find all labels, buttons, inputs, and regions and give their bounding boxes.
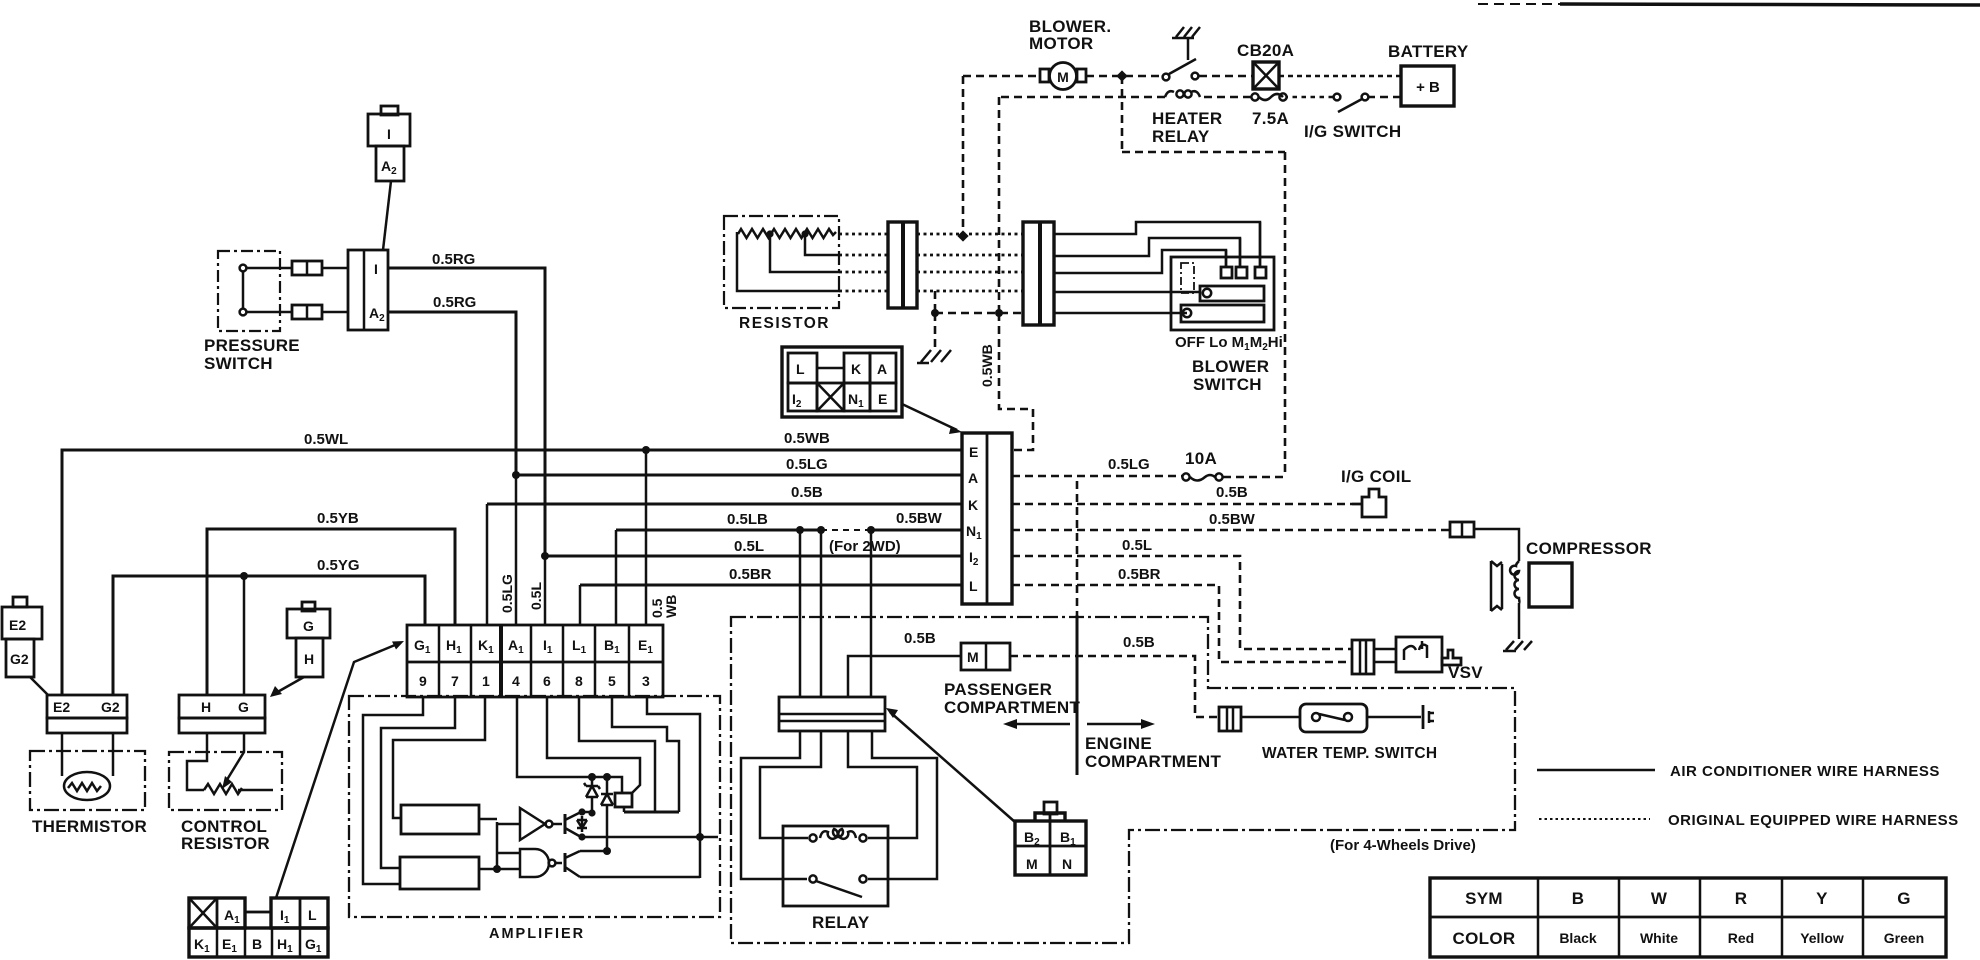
connector 2x5 block (amplifier pigtail) bbox=[189, 898, 328, 957]
wire 0.5LG bus bbox=[516, 474, 962, 477]
svg-text:0.5WB: 0.5WB bbox=[784, 430, 830, 447]
svg-text:I/G SWITCH: I/G SWITCH bbox=[1304, 122, 1401, 141]
wire I/G switch to fuse bbox=[1287, 96, 1333, 99]
connector compressor bbox=[1450, 522, 1474, 537]
svg-text:E: E bbox=[969, 444, 978, 460]
wire 0.5BR bus bbox=[580, 584, 962, 587]
svg-text:Y: Y bbox=[1816, 889, 1828, 908]
control resistor connector H G bbox=[179, 695, 265, 733]
wire blower motor drop to resistor bus bbox=[962, 76, 965, 236]
IG coil bbox=[1352, 489, 1386, 517]
svg-text:0.5L: 0.5L bbox=[734, 538, 764, 555]
wire amp pin7 staircase bbox=[381, 697, 455, 868]
wire fuse to CB20A drop bbox=[1223, 476, 1285, 479]
wire pointer B2 connector to relay connector bbox=[886, 708, 1015, 822]
wire 0.5LG riser to A1 bbox=[515, 475, 518, 625]
node junction Q1 collector bbox=[578, 808, 585, 815]
wire connector to compressor bbox=[1474, 529, 1519, 561]
connector blower switch side bbox=[1023, 222, 1054, 325]
pressure switch bbox=[218, 251, 292, 331]
svg-text:RESISTOR: RESISTOR bbox=[181, 834, 270, 853]
svg-text:Yellow: Yellow bbox=[1800, 930, 1844, 946]
compartment divider bbox=[1076, 481, 1079, 775]
connector pigtail E2/G2 bbox=[2, 597, 48, 695]
wire block outputs bbox=[479, 819, 520, 869]
svg-text:M: M bbox=[967, 649, 979, 665]
inverter gate bbox=[520, 808, 562, 840]
svg-text:G: G bbox=[1897, 889, 1911, 908]
page edge line top right bbox=[1478, 4, 1980, 5]
node junction emitter/pin3 bbox=[696, 833, 704, 841]
wire blower switch feed Lo bbox=[1054, 291, 1200, 294]
connector M bbox=[961, 643, 1010, 670]
fuse 7.5A bbox=[1251, 93, 1286, 100]
svg-text:E: E bbox=[878, 391, 887, 407]
wire connector to water temp switch bbox=[1241, 716, 1300, 719]
wire relay coil left bbox=[760, 731, 821, 838]
svg-text:RELAY: RELAY bbox=[812, 913, 870, 932]
diode D2 bbox=[601, 777, 613, 851]
wire pointer 2x5 block to amplifier connector bbox=[276, 641, 404, 898]
harness boundary loop (For 4WD) bbox=[731, 617, 1515, 943]
wire blower switch feed Hi bbox=[1054, 222, 1260, 267]
svg-text:(For 4-Wheels Drive): (For 4-Wheels Drive) bbox=[1330, 837, 1476, 854]
wire 0.5WB dashed drop to E bbox=[999, 97, 1033, 450]
connector strip E A K N1 I2 L bbox=[962, 433, 1012, 604]
wire 0.5LG to fuse bbox=[1012, 475, 1183, 478]
ground below resistor bus bbox=[917, 350, 951, 363]
svg-text:0.5RG: 0.5RG bbox=[433, 294, 476, 311]
heater relay label bbox=[1152, 109, 1222, 146]
svg-text:B: B bbox=[252, 936, 262, 952]
thermistor connector E2 G2 bbox=[47, 695, 127, 733]
legend dotted harness bbox=[1539, 812, 1959, 829]
ground above heater relay bbox=[1172, 27, 1200, 38]
compressor bbox=[1491, 561, 1572, 639]
svg-text:0.5BR: 0.5BR bbox=[1118, 566, 1161, 583]
svg-text:BATTERY: BATTERY bbox=[1388, 42, 1469, 61]
svg-text:THERMISTOR: THERMISTOR bbox=[32, 817, 147, 836]
wire amp pin8 staircase bbox=[579, 697, 655, 812]
svg-text:BLOWER: BLOWER bbox=[1192, 357, 1269, 376]
wire amp pin9 staircase bbox=[363, 697, 423, 884]
svg-text:ENGINE: ENGINE bbox=[1085, 734, 1152, 753]
svg-text:L: L bbox=[308, 907, 317, 923]
wire 0.5B bus bbox=[487, 503, 962, 506]
svg-text:M: M bbox=[1057, 69, 1069, 85]
svg-text:0.5LG: 0.5LG bbox=[786, 456, 828, 473]
wire 0.5YG bbox=[113, 576, 425, 695]
wire connector to VSV bbox=[1374, 649, 1397, 662]
wire switch to body ground bbox=[1367, 716, 1421, 719]
wire 0.5B to IG coil bbox=[1012, 503, 1352, 506]
terminal bead lower bbox=[292, 305, 322, 319]
svg-text:A: A bbox=[968, 470, 978, 486]
wire amp pin5 staircase bbox=[612, 697, 679, 812]
passenger compartment label bbox=[944, 680, 1080, 717]
svg-text:RELAY: RELAY bbox=[1152, 127, 1210, 146]
wire amp pin1 staircase bbox=[393, 697, 485, 818]
svg-text:M: M bbox=[1026, 856, 1038, 872]
svg-text:0.5WB: 0.5WB bbox=[979, 344, 995, 387]
svg-text:0.5WL: 0.5WL bbox=[304, 431, 348, 448]
wire heater relay coil to 0.5WB drop bbox=[999, 96, 1165, 99]
svg-text:PRESSURE: PRESSURE bbox=[204, 336, 300, 355]
wire 0.5L bus bbox=[545, 555, 962, 558]
node junction resistor ground bbox=[931, 309, 939, 317]
wire resistor to connector dotted bbox=[839, 234, 888, 291]
connector B2 B1 M N bbox=[1015, 802, 1086, 875]
legend solid harness bbox=[1537, 763, 1940, 780]
svg-text:SYM: SYM bbox=[1465, 889, 1503, 908]
wire amp pin3 staircase bbox=[647, 697, 700, 878]
color code table bbox=[1430, 878, 1946, 957]
svg-text:H: H bbox=[304, 651, 314, 667]
wire pointer block to strip bbox=[902, 404, 962, 434]
body ground water temp bbox=[1423, 705, 1434, 729]
svg-text:AMPLIFIER: AMPLIFIER bbox=[489, 926, 585, 942]
node junction motor right bbox=[1116, 70, 1127, 81]
node junction relay feed 3 bbox=[867, 526, 875, 534]
wire box to rail bbox=[623, 807, 626, 812]
circuit breaker CB20A bbox=[1253, 62, 1279, 89]
node junction diode top bbox=[603, 773, 611, 781]
blower motor M1 bbox=[1040, 63, 1086, 90]
svg-text:G: G bbox=[238, 699, 249, 715]
wire 0.5L riser to I1 bbox=[544, 556, 547, 625]
water temp switch bbox=[1300, 704, 1367, 732]
svg-text:L: L bbox=[969, 578, 978, 594]
svg-text:WATER TEMP. SWITCH: WATER TEMP. SWITCH bbox=[1262, 745, 1437, 762]
NAND gate bbox=[520, 849, 562, 877]
wire relay coil right bbox=[848, 731, 917, 838]
node junction Q2 collector bbox=[603, 847, 611, 855]
wire blower switch feed M2 bbox=[1054, 238, 1240, 267]
control resistor label bbox=[181, 817, 270, 853]
wire relay switch right bbox=[868, 731, 937, 879]
svg-text:4: 4 bbox=[512, 673, 520, 689]
wire contact to CB20A bbox=[1199, 75, 1253, 78]
wire Q1 collector node bbox=[581, 811, 592, 814]
control resistor bbox=[169, 733, 282, 810]
node junction NAND input bbox=[493, 865, 501, 873]
wire beads to connector bbox=[322, 268, 348, 312]
heater relay coil bbox=[1165, 90, 1200, 97]
node junction relay feed 1 bbox=[796, 526, 804, 534]
svg-text:N: N bbox=[1062, 856, 1072, 872]
wire 0.5BR to VSV bbox=[1012, 585, 1352, 662]
connector pigtail G/H bbox=[270, 602, 330, 697]
svg-text:10A: 10A bbox=[1185, 449, 1217, 468]
svg-text:0.5B: 0.5B bbox=[791, 484, 823, 501]
wire 0.5LB bus bbox=[616, 529, 962, 532]
wire 0.5B riser to K1 bbox=[486, 504, 489, 625]
connector block L K A / I2 N1 E bbox=[782, 347, 902, 417]
node junction zener bottom bbox=[588, 809, 595, 816]
wire 0.5RG lower bbox=[388, 312, 516, 475]
svg-text:8: 8 bbox=[575, 673, 583, 689]
wire ground link bbox=[935, 291, 1023, 348]
svg-text:5: 5 bbox=[608, 673, 616, 689]
wire CB20A to battery bbox=[1279, 75, 1401, 78]
svg-text:R: R bbox=[1735, 889, 1748, 908]
svg-text:0.5RG: 0.5RG bbox=[432, 251, 475, 268]
wire relay switch left bbox=[741, 731, 807, 879]
wire For 2WD dashed link bbox=[821, 529, 871, 531]
wire 0.5BW to compressor connector bbox=[1012, 529, 1450, 532]
node junction 0.5WL/0.5WB/E1 bbox=[642, 446, 650, 454]
ground compressor bbox=[1503, 641, 1532, 651]
svg-text:0.5B: 0.5B bbox=[1216, 484, 1248, 501]
svg-text:A: A bbox=[877, 361, 887, 377]
svg-text:H: H bbox=[201, 699, 211, 715]
svg-text:I: I bbox=[374, 261, 378, 277]
blower motor M1 label bbox=[1029, 17, 1111, 53]
wire collector rail bbox=[624, 811, 679, 814]
node junction at motor left drop bbox=[957, 230, 968, 241]
wire amp pin4 rail bbox=[517, 697, 622, 793]
svg-text:COMPRESSOR: COMPRESSOR bbox=[1526, 539, 1652, 558]
svg-text:PASSENGER: PASSENGER bbox=[944, 680, 1052, 699]
svg-text:I: I bbox=[387, 126, 391, 142]
svg-text:COMPARTMENT: COMPARTMENT bbox=[1085, 752, 1221, 771]
arrow passenger bbox=[1003, 719, 1070, 729]
wire blower switch feed E bbox=[1054, 312, 1187, 315]
node junction 0.5RG/0.5L bbox=[541, 552, 549, 560]
svg-text:W: W bbox=[1651, 889, 1668, 908]
zener D1 bbox=[584, 777, 600, 812]
resistor (blower) bbox=[724, 216, 839, 308]
wire 0.5BR riser to L1 bbox=[579, 585, 582, 625]
svg-text:G: G bbox=[303, 618, 314, 634]
wire relay feeds down bbox=[800, 530, 871, 697]
wire control resistor G tap bbox=[243, 576, 246, 695]
wire blower switch feed M1 bbox=[1054, 250, 1226, 273]
wire 0.5YB bbox=[207, 529, 455, 695]
blower switch label bbox=[1192, 357, 1269, 394]
svg-text:0.5L: 0.5L bbox=[1122, 537, 1152, 554]
node junction 0.5YG/G bbox=[240, 572, 248, 580]
amplifier block upper bbox=[401, 805, 479, 834]
I/G switch bbox=[1334, 94, 1369, 112]
fuse 10A bbox=[1182, 473, 1222, 480]
svg-text:WB: WB bbox=[663, 595, 679, 618]
svg-text:K: K bbox=[968, 497, 978, 513]
wire relay to M connector bbox=[848, 656, 961, 697]
wire Q2 emitter line bbox=[580, 876, 700, 879]
connector resistor side bbox=[888, 222, 917, 308]
svg-text:HEATER: HEATER bbox=[1152, 109, 1222, 128]
pressure switch label bbox=[204, 336, 300, 373]
svg-text:Green: Green bbox=[1884, 930, 1924, 946]
VSV bbox=[1396, 637, 1461, 672]
wire 0.5L to VSV bbox=[1012, 556, 1352, 649]
svg-text:+ B: + B bbox=[1416, 79, 1440, 96]
wire amp pin6 staircase bbox=[547, 697, 640, 793]
svg-text:ORIGINAL EQUIPPED WIRE HARNESS: ORIGINAL EQUIPPED WIRE HARNESS bbox=[1668, 812, 1959, 829]
svg-text:0.5LB: 0.5LB bbox=[727, 511, 768, 528]
wire blower motor feed (dashed, original harness) bbox=[963, 75, 1163, 78]
svg-text:SWITCH: SWITCH bbox=[204, 354, 273, 373]
svg-text:I/G COIL: I/G COIL bbox=[1341, 467, 1411, 486]
wire M to water temp switch bbox=[1010, 656, 1219, 717]
thermistor bbox=[30, 733, 145, 810]
svg-text:0.5L: 0.5L bbox=[528, 582, 544, 610]
relay bbox=[783, 826, 888, 906]
amplifier connector block bbox=[407, 625, 663, 697]
wire connector to connector dotted bus bbox=[917, 234, 1023, 291]
node junction zener top bbox=[588, 773, 596, 781]
svg-text:7.5A: 7.5A bbox=[1252, 109, 1289, 128]
svg-text:White: White bbox=[1640, 930, 1678, 946]
driver box bbox=[615, 793, 632, 807]
svg-text:K: K bbox=[851, 361, 861, 377]
wire battery to I/G switch bbox=[1369, 96, 1401, 99]
wire 0.5WL bbox=[62, 450, 646, 695]
svg-text:CB20A: CB20A bbox=[1237, 41, 1294, 60]
engine compartment label bbox=[1085, 734, 1221, 771]
arrow engine bbox=[1087, 719, 1155, 729]
svg-text:COLOR: COLOR bbox=[1453, 929, 1516, 948]
svg-text:9: 9 bbox=[419, 673, 427, 689]
connector VSV bbox=[1352, 640, 1374, 674]
svg-text:0.5BW: 0.5BW bbox=[896, 510, 943, 527]
node junction Q1 emitter bbox=[578, 833, 585, 840]
connector water temp switch bbox=[1219, 707, 1241, 731]
wire pigtail to pressure switch connector bbox=[383, 181, 391, 250]
relay connector bbox=[779, 697, 885, 731]
blower switch bbox=[1171, 222, 1274, 330]
svg-text:0.5LG: 0.5LG bbox=[499, 574, 515, 613]
connector pigtail I/A2 bbox=[368, 106, 410, 181]
svg-text:B: B bbox=[1572, 889, 1585, 908]
wire Q1 emitter line bbox=[582, 836, 718, 839]
wire Q2 collector node bbox=[580, 850, 607, 853]
node junction ground tap bbox=[995, 309, 1003, 317]
svg-text:SWITCH: SWITCH bbox=[1193, 375, 1262, 394]
wire 0.5WB riser label bbox=[649, 595, 679, 618]
svg-text:0.5YG: 0.5YG bbox=[317, 557, 360, 574]
svg-text:7: 7 bbox=[451, 673, 459, 689]
connector I/A2 at pressure switch bbox=[348, 250, 388, 330]
wire loop junction to CB20A feed down bbox=[1122, 76, 1285, 477]
svg-text:RESISTOR: RESISTOR bbox=[739, 315, 830, 332]
wire 0.5WB to connector E bbox=[646, 449, 962, 452]
svg-text:(For 2WD): (For 2WD) bbox=[829, 538, 901, 555]
svg-text:0.5B: 0.5B bbox=[904, 630, 936, 647]
svg-text:6: 6 bbox=[543, 673, 551, 689]
svg-text:0.5BR: 0.5BR bbox=[729, 566, 772, 583]
svg-text:MOTOR: MOTOR bbox=[1029, 34, 1093, 53]
transistor Q2 bbox=[565, 851, 580, 877]
amplifier block lower bbox=[400, 857, 479, 889]
node junction 0.5RG/0.5LG bbox=[512, 471, 520, 479]
heater relay contact switch bbox=[1163, 37, 1199, 80]
transistor Q1 bbox=[565, 812, 587, 837]
svg-text:3: 3 bbox=[642, 673, 650, 689]
svg-text:Black: Black bbox=[1559, 930, 1597, 946]
svg-text:0.5BW: 0.5BW bbox=[1209, 511, 1256, 528]
svg-text:VSV: VSV bbox=[1448, 663, 1483, 682]
wire 0.5WB drop label bbox=[979, 344, 995, 387]
wire fuse to heater relay coil bbox=[1200, 96, 1251, 99]
wire 0.5RG upper bbox=[388, 268, 545, 556]
svg-text:Red: Red bbox=[1728, 930, 1754, 946]
svg-text:E2: E2 bbox=[53, 699, 70, 715]
terminal bead upper bbox=[292, 261, 322, 275]
wire 0.5LB riser to B1 bbox=[615, 530, 618, 625]
battery +B bbox=[1401, 66, 1454, 106]
wire 0.5WB riser to E1 bbox=[645, 450, 648, 625]
svg-text:0.5YB: 0.5YB bbox=[317, 510, 359, 527]
svg-text:1: 1 bbox=[482, 673, 490, 689]
svg-text:E2: E2 bbox=[9, 617, 26, 633]
svg-text:COMPARTMENT: COMPARTMENT bbox=[944, 698, 1080, 717]
svg-text:0.5B: 0.5B bbox=[1123, 634, 1155, 651]
svg-text:G2: G2 bbox=[10, 651, 29, 667]
node junction relay feed 2 bbox=[817, 526, 825, 534]
svg-text:L: L bbox=[796, 361, 805, 377]
svg-text:AIR CONDITIONER WIRE HARNESS: AIR CONDITIONER WIRE HARNESS bbox=[1670, 763, 1940, 780]
svg-text:G2: G2 bbox=[101, 699, 120, 715]
amplifier outline bbox=[349, 696, 720, 917]
svg-text:0.5LG: 0.5LG bbox=[1108, 456, 1150, 473]
